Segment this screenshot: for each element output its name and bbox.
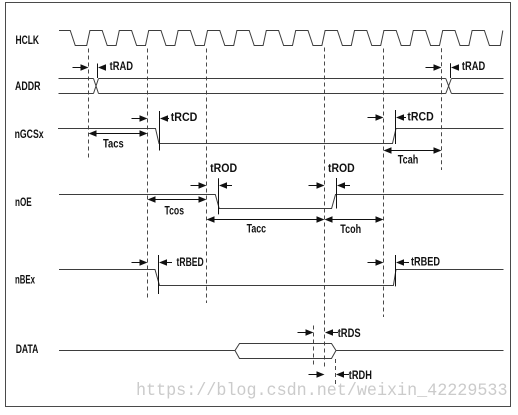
svg-text:tRAD: tRAD [110, 59, 134, 73]
svg-text:DATA: DATA [16, 342, 39, 356]
svg-text:nGCSx: nGCSx [15, 127, 44, 141]
svg-text:tROD: tROD [328, 161, 355, 175]
svg-text:HCLK: HCLK [16, 33, 40, 47]
svg-text:Tcah: Tcah [398, 153, 419, 167]
svg-text:ADDR: ADDR [15, 79, 41, 93]
svg-text:Tacs: Tacs [103, 137, 124, 151]
svg-text:tRAD: tRAD [462, 59, 486, 73]
svg-text:tRCD: tRCD [407, 110, 434, 124]
svg-text:tRDH: tRDH [349, 368, 372, 382]
svg-text:Tcos: Tcos [165, 204, 185, 218]
svg-text:tRDS: tRDS [338, 326, 361, 340]
svg-text:Tcoh: Tcoh [340, 222, 361, 236]
svg-text:https://blog.csdn.net/weixin_4: https://blog.csdn.net/weixin_42229533 [136, 382, 508, 401]
svg-text:nOE: nOE [15, 195, 32, 209]
svg-text:nBEx: nBEx [15, 273, 35, 287]
svg-text:Tacc: Tacc [247, 222, 267, 236]
svg-text:tRBED: tRBED [177, 255, 205, 269]
svg-text:tRBED: tRBED [411, 255, 440, 269]
svg-text:tRCD: tRCD [171, 110, 198, 124]
svg-text:tROD: tROD [210, 161, 237, 175]
